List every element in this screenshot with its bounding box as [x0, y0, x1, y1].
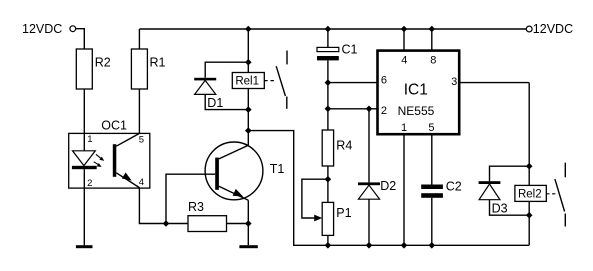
node rail-pin1 — [401, 242, 408, 249]
node rail-C1 — [325, 26, 332, 33]
svg-text:2: 2 — [87, 178, 92, 189]
OC1 light arrow 2 — [94, 162, 99, 165]
svg-text:4: 4 — [139, 177, 144, 188]
svg-text:4: 4 — [401, 54, 407, 66]
terminal 12VDC left — [70, 26, 76, 32]
node D1 bottom — [245, 106, 252, 113]
wire emitter to ground — [247, 200, 249, 245]
wire collector branch — [248, 131, 529, 246]
resistor R3 — [188, 216, 227, 232]
wire main vertical top — [247, 29, 249, 73]
OC1 LED — [73, 151, 96, 166]
svg-text:C2: C2 — [446, 180, 462, 194]
resistor R2 — [76, 49, 92, 89]
svg-text:1: 1 — [87, 134, 92, 145]
pin 5 — [431, 134, 433, 184]
svg-text:R3: R3 — [188, 200, 204, 214]
wire base node to T1 — [166, 174, 215, 223]
svg-text:P1: P1 — [336, 206, 351, 220]
diode D1 — [205, 62, 248, 78]
wire — [83, 89, 85, 151]
svg-text:6: 6 — [381, 74, 387, 86]
svg-text:OC1: OC1 — [101, 119, 127, 133]
svg-text:2: 2 — [381, 105, 387, 117]
wire — [76, 29, 85, 49]
svg-text:Rel2: Rel2 — [518, 189, 542, 201]
relay coil Rel2 — [515, 185, 546, 201]
svg-text:12VDC: 12VDC — [533, 22, 573, 36]
node base — [163, 220, 170, 227]
wire — [327, 235, 329, 245]
wire — [138, 89, 140, 133]
terminal 12VDC right — [526, 26, 532, 32]
relay coil Rel1 — [232, 73, 264, 89]
pin 6 — [328, 82, 378, 84]
node rail-D2 — [366, 242, 373, 249]
pin 1 — [403, 134, 405, 245]
node emitter-R3 — [245, 220, 252, 227]
pin 3 — [459, 82, 529, 84]
resistor R1 — [131, 49, 147, 89]
node pin2 left — [325, 106, 332, 113]
node rail-pin8 — [429, 26, 436, 33]
svg-text:C1: C1 — [342, 42, 358, 56]
node pin2-D2 — [366, 106, 373, 113]
node D3 top — [526, 163, 533, 170]
wire OC1 pin2 to ground — [83, 169, 85, 245]
wire Rel2 vertical — [528, 83, 530, 186]
svg-text:R1: R1 — [150, 56, 166, 70]
wire OC1 pin4 — [139, 188, 166, 224]
svg-text:5: 5 — [428, 122, 434, 134]
svg-text:D2: D2 — [380, 179, 396, 193]
node rail-Rel1 — [245, 26, 252, 33]
OC1 phototransistor — [113, 144, 117, 177]
wire — [327, 166, 329, 202]
OC1 light arrow 1 — [96, 154, 101, 158]
svg-text:5: 5 — [139, 134, 144, 145]
wire — [227, 223, 249, 225]
transistor T1 — [205, 142, 263, 200]
node D3 bottom — [526, 212, 533, 219]
node pin6-C1 — [325, 79, 332, 86]
node collector — [245, 127, 252, 134]
Rel2 contact — [564, 163, 566, 178]
diode D3 — [490, 166, 530, 181]
ground — [239, 245, 257, 248]
resistor R4 — [322, 130, 333, 166]
svg-text:T1: T1 — [270, 162, 285, 176]
optocoupler OC1 — [69, 133, 150, 188]
svg-text:R4: R4 — [336, 138, 352, 152]
node rail-P1 — [325, 242, 332, 249]
pin 2 — [328, 108, 378, 110]
svg-text:1: 1 — [401, 122, 407, 134]
svg-text:D3: D3 — [492, 201, 508, 215]
node rail-C2 — [429, 242, 436, 249]
wire top rail — [139, 28, 526, 30]
ground — [76, 245, 93, 248]
Rel2 contact dashed link — [546, 193, 556, 195]
svg-text:IC1: IC1 — [404, 82, 428, 99]
svg-text:NE555: NE555 — [398, 104, 435, 118]
node rail-pin4 — [401, 26, 408, 33]
svg-text:8: 8 — [430, 54, 436, 66]
svg-text:R2: R2 — [95, 56, 111, 70]
potentiometer P1 — [322, 202, 333, 235]
wire — [138, 29, 140, 49]
Rel1 contact dashed link — [264, 80, 276, 82]
Rel1 contact — [286, 51, 288, 65]
diode D2 — [368, 109, 370, 183]
node R4-P1 — [325, 176, 332, 183]
svg-text:3: 3 — [451, 76, 457, 88]
pin 4 — [403, 29, 405, 51]
wire — [166, 223, 188, 225]
capacitor C1 — [327, 29, 329, 47]
svg-text:Rel1: Rel1 — [235, 76, 259, 88]
pin 8 — [431, 29, 433, 51]
svg-text:12VDC: 12VDC — [22, 22, 62, 36]
capacitor C2 — [421, 185, 443, 190]
wire — [247, 89, 249, 146]
P1 wiper loop — [302, 179, 328, 218]
svg-text:D1: D1 — [207, 96, 223, 110]
IC IC1 NE555 timer — [378, 51, 460, 135]
node D1 top — [245, 59, 252, 66]
